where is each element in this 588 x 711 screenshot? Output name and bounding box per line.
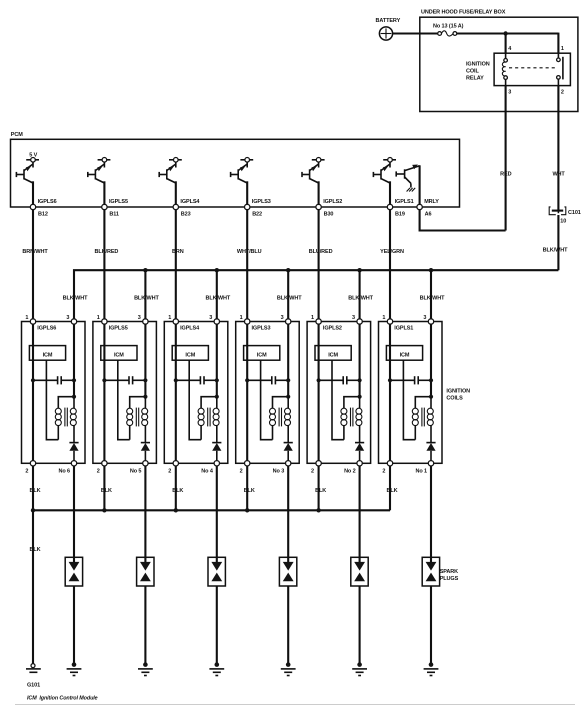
node coil pin 1 bbox=[316, 319, 321, 324]
svg-text:No 5: No 5 bbox=[130, 468, 142, 474]
wire pin1 through ICM to pin2 bbox=[175, 324, 177, 460]
battery bbox=[376, 18, 401, 40]
footer note ICM bbox=[27, 696, 98, 702]
capacitor (noise filter) bbox=[388, 376, 433, 384]
svg-text:BATTERY: BATTERY bbox=[376, 18, 401, 24]
spark plug No 3 bbox=[279, 557, 296, 586]
svg-text:2: 2 bbox=[25, 468, 28, 474]
svg-text:BLU/RED: BLU/RED bbox=[309, 249, 333, 255]
wire coil No 3 to spark plug bbox=[287, 466, 289, 562]
svg-text:COILS: COILS bbox=[446, 396, 463, 402]
svg-text:IGPLS6: IGPLS6 bbox=[37, 325, 56, 331]
wire pin3 down right side bbox=[430, 324, 432, 397]
svg-text:BLK: BLK bbox=[29, 547, 40, 553]
diode (secondary) bbox=[141, 443, 150, 461]
svg-text:IGPLS4: IGPLS4 bbox=[180, 199, 200, 205]
svg-text:ICM: ICM bbox=[185, 352, 195, 358]
wire BLK to G101 bbox=[29, 510, 40, 663]
wire spark plug No 5 to ground bbox=[144, 586, 146, 665]
svg-text:IGPLS5: IGPLS5 bbox=[109, 199, 128, 205]
svg-text:BLK: BLK bbox=[172, 488, 183, 494]
svg-text:G101: G101 bbox=[27, 683, 40, 689]
node pin A6 (MRLY) bbox=[417, 199, 439, 217]
node coil pin 3 bbox=[214, 319, 219, 324]
svg-text:1: 1 bbox=[25, 315, 28, 321]
ICM box bbox=[315, 346, 351, 361]
ground at spark plug No 3 bbox=[281, 662, 296, 675]
wire ICM output to primary bbox=[189, 360, 201, 440]
junction BLK bus 2 bbox=[102, 508, 106, 512]
wire BLK from coil No 2 pin 2 bbox=[315, 466, 326, 510]
wire coil No 4 to spark plug bbox=[216, 466, 218, 562]
svg-text:No 13 (15 A): No 13 (15 A) bbox=[433, 24, 464, 30]
transistor driver IGPLS3 bbox=[231, 158, 254, 184]
svg-text:B12: B12 bbox=[38, 211, 48, 217]
node coil pin 3 bbox=[286, 319, 291, 324]
wire WHT : relay pin 2 down to C101 bbox=[557, 86, 559, 211]
ground G101 bbox=[26, 664, 41, 689]
svg-text:UNDER HOOD FUSE/RELAY BOX: UNDER HOOD FUSE/RELAY BOX bbox=[421, 10, 506, 16]
ignition coil unit IGPLS4 / No 4 bbox=[164, 315, 228, 464]
svg-text:B23: B23 bbox=[181, 211, 191, 217]
svg-text:SPARK: SPARK bbox=[440, 569, 458, 575]
svg-text:B11: B11 bbox=[109, 211, 119, 217]
svg-text:BLK: BLK bbox=[29, 488, 40, 494]
ignition coil unit IGPLS2 / No 2 bbox=[307, 315, 371, 464]
svg-text:BLK: BLK bbox=[386, 488, 397, 494]
svg-text:BLK/WHT: BLK/WHT bbox=[420, 295, 445, 301]
node coil pin 2 bbox=[311, 461, 321, 475]
wire coil No 5 to spark plug bbox=[144, 466, 146, 562]
wire BRN (IGPLS4 signal) bbox=[172, 210, 184, 322]
wire IGPLS2 output to pin B30 bbox=[318, 181, 320, 207]
spark plug No 6 bbox=[65, 557, 82, 586]
wire IGPLS4 output to pin B23 bbox=[175, 181, 177, 207]
diode (secondary) bbox=[426, 443, 435, 461]
transistor driver IGPLS6 bbox=[16, 158, 39, 184]
svg-text:No 6: No 6 bbox=[58, 468, 70, 474]
svg-text:ICM: ICM bbox=[257, 352, 267, 358]
spark plug No 2 bbox=[351, 557, 368, 586]
svg-text:2: 2 bbox=[311, 468, 314, 474]
svg-text:IGPLS5: IGPLS5 bbox=[109, 325, 128, 331]
wire pin1 through ICM to pin2 bbox=[389, 324, 391, 460]
svg-text:WHT/BLU: WHT/BLU bbox=[237, 249, 262, 255]
svg-text:IGPLS6: IGPLS6 bbox=[38, 199, 57, 205]
wire ICM output to primary bbox=[46, 360, 58, 440]
node coil pin 2 bbox=[25, 461, 35, 475]
wire IGPLS1 output to pin B19 bbox=[389, 181, 391, 207]
svg-text:C101: C101 bbox=[568, 210, 581, 216]
capacitor (noise filter) bbox=[102, 376, 147, 384]
wire down to relay pin 4 bbox=[505, 34, 507, 54]
wire ICM output to primary bbox=[118, 360, 130, 440]
svg-text:1: 1 bbox=[561, 46, 564, 52]
svg-text:IGPLS2: IGPLS2 bbox=[323, 325, 342, 331]
transistor driver IGPLS5 bbox=[88, 158, 111, 184]
svg-text:ICM: ICM bbox=[328, 352, 338, 358]
node pin B11 (IGPLS5) bbox=[102, 199, 128, 217]
transistor driver IGPLS2 bbox=[302, 158, 325, 184]
svg-text:IGNITION: IGNITION bbox=[466, 62, 490, 68]
node coil pin 3 bbox=[357, 319, 362, 324]
wire BLK from coil No 4 pin 2 bbox=[172, 466, 183, 510]
svg-text:2: 2 bbox=[382, 468, 385, 474]
svg-text:ICM: ICM bbox=[43, 352, 53, 358]
junction BLK bus 4 bbox=[245, 508, 249, 512]
wire A6 to RED wire bbox=[420, 210, 506, 231]
wire pin3 down right side bbox=[287, 324, 289, 397]
svg-text:1: 1 bbox=[168, 315, 171, 321]
svg-text:BLK/RED: BLK/RED bbox=[95, 249, 119, 255]
ICM box bbox=[29, 346, 65, 361]
wire IGPLS5 output to pin B11 bbox=[103, 181, 105, 207]
svg-text:3: 3 bbox=[352, 315, 355, 321]
junction at relay pin 4 bbox=[503, 31, 507, 35]
scan artifact line bbox=[15, 704, 575, 706]
wire BLK ground bus bbox=[33, 509, 390, 511]
ignition coil unit IGPLS1 / No 1 bbox=[379, 315, 443, 464]
ICM box bbox=[244, 346, 280, 361]
node coil pin 2 bbox=[168, 461, 178, 475]
svg-text:ICM Ignition Control Module: ICM Ignition Control Module bbox=[27, 696, 98, 702]
diode (secondary) bbox=[69, 443, 78, 461]
transformer windings bbox=[198, 397, 219, 443]
node coil pin 2 bbox=[240, 461, 250, 475]
svg-text:BRN/WHT: BRN/WHT bbox=[22, 249, 48, 255]
node coil pin No 3 bbox=[273, 461, 291, 475]
svg-text:IGPLS2: IGPLS2 bbox=[323, 199, 342, 205]
diode (secondary) bbox=[355, 443, 364, 461]
wire BLK from coil No 3 pin 2 bbox=[244, 466, 255, 510]
node pin B19 (IGPLS1) bbox=[387, 199, 413, 217]
svg-text:3: 3 bbox=[281, 315, 284, 321]
svg-text:PLUGS: PLUGS bbox=[440, 576, 459, 582]
wire BLK from coil No 6 pin 2 bbox=[29, 466, 40, 510]
wire primary top feed bbox=[415, 395, 433, 408]
ignition coil relay bbox=[466, 46, 570, 95]
svg-text:B22: B22 bbox=[252, 211, 262, 217]
spark plug No 4 bbox=[208, 557, 225, 586]
connector C101 pin 10 bbox=[549, 207, 581, 225]
label SPARK PLUGS bbox=[440, 569, 459, 582]
svg-text:IGPLS4: IGPLS4 bbox=[180, 325, 200, 331]
wire pin1 through ICM to pin2 bbox=[103, 324, 105, 460]
node coil pin 1 bbox=[30, 319, 35, 324]
node coil pin 1 bbox=[387, 319, 392, 324]
svg-text:B19: B19 bbox=[395, 211, 405, 217]
svg-text:No 3: No 3 bbox=[273, 468, 285, 474]
capacitor (noise filter) bbox=[317, 376, 362, 384]
svg-text:3: 3 bbox=[209, 315, 212, 321]
svg-text:3: 3 bbox=[423, 315, 426, 321]
svg-text:BLK/WHT: BLK/WHT bbox=[63, 295, 88, 301]
svg-text:ICM: ICM bbox=[114, 352, 124, 358]
wire YEL/GRN (IGPLS1 signal) bbox=[380, 210, 404, 322]
node coil pin No 1 bbox=[415, 461, 433, 475]
node pin B23 (IGPLS4) bbox=[173, 199, 200, 217]
svg-text:IGPLS3: IGPLS3 bbox=[252, 325, 271, 331]
under-hood fuse/relay box bbox=[420, 10, 578, 112]
ignition coil unit IGPLS5 / No 5 bbox=[93, 315, 156, 464]
svg-text:No 4: No 4 bbox=[201, 468, 214, 474]
svg-text:BLK/WHT: BLK/WHT bbox=[348, 295, 373, 301]
svg-text:BLK: BLK bbox=[244, 488, 255, 494]
wire IGPLS3 output to pin B22 bbox=[246, 181, 248, 207]
ground at spark plug No 6 bbox=[67, 662, 82, 675]
wire primary top feed bbox=[344, 395, 362, 408]
wire spark plug No 2 to ground bbox=[359, 586, 361, 665]
wire pin3 down right side bbox=[216, 324, 218, 397]
wire WHT/BLU (IGPLS3 signal) bbox=[237, 210, 262, 322]
wire IGPLS6 output to pin B12 bbox=[32, 181, 34, 207]
node pin B30 (IGPLS2) bbox=[316, 199, 342, 217]
wire RED : relay pin 3 down to A6 row bbox=[505, 86, 507, 231]
svg-text:COIL: COIL bbox=[466, 69, 479, 75]
node pin B12 (IGPLS6) bbox=[30, 199, 56, 217]
node coil pin No 4 bbox=[201, 461, 219, 475]
svg-text:3: 3 bbox=[508, 89, 511, 95]
svg-text:A6: A6 bbox=[425, 211, 432, 217]
svg-text:1: 1 bbox=[311, 315, 314, 321]
svg-text:BLK/WHT: BLK/WHT bbox=[277, 295, 302, 301]
node coil pin 2 bbox=[97, 461, 107, 475]
svg-text:IGPLS1: IGPLS1 bbox=[395, 199, 414, 205]
wire BLK from coil No 1 pin 2 bbox=[386, 466, 397, 510]
node pin B22 (IGPLS3) bbox=[245, 199, 271, 217]
svg-text:2: 2 bbox=[240, 468, 243, 474]
transformer windings bbox=[412, 397, 433, 443]
junction BLK bus 3 bbox=[174, 508, 178, 512]
svg-text:BLK: BLK bbox=[315, 488, 326, 494]
ICM box bbox=[172, 346, 208, 361]
node coil pin No 2 bbox=[344, 461, 362, 475]
svg-text:IGPLS3: IGPLS3 bbox=[252, 199, 271, 205]
wire pin3 down right side bbox=[144, 324, 146, 397]
wire BLK/RED (IGPLS5 signal) bbox=[95, 210, 119, 322]
wire pin1 through ICM to pin2 bbox=[32, 324, 34, 460]
wire BLK from coil No 5 pin 2 bbox=[101, 466, 112, 510]
wire pin1 through ICM to pin2 bbox=[318, 324, 320, 460]
svg-text:No 2: No 2 bbox=[344, 468, 356, 474]
ground inside PCM (MRLY emitter) bbox=[407, 188, 416, 192]
spark plug No 1 bbox=[422, 557, 439, 586]
svg-text:2: 2 bbox=[168, 468, 171, 474]
wire BLK/WHT drop to coil No 2 bbox=[357, 268, 361, 322]
svg-text:3: 3 bbox=[66, 315, 69, 321]
PCM box bbox=[11, 132, 460, 207]
svg-text:No 1: No 1 bbox=[415, 468, 427, 474]
wire coil No 6 to spark plug bbox=[73, 466, 75, 562]
svg-text:1: 1 bbox=[382, 315, 385, 321]
wire ICM output to primary bbox=[403, 360, 415, 440]
wire BLK/WHT : C101 down to bus bbox=[557, 215, 559, 270]
capacitor (noise filter) bbox=[31, 376, 76, 384]
ICM box bbox=[386, 346, 422, 361]
wire spark plug No 3 to ground bbox=[287, 586, 289, 665]
wire BLK/WHT drop to coil No 4 bbox=[215, 268, 219, 322]
node coil pin No 6 bbox=[58, 461, 76, 475]
svg-text:RED: RED bbox=[500, 172, 511, 178]
svg-text:3: 3 bbox=[138, 315, 141, 321]
svg-text:2: 2 bbox=[561, 89, 564, 95]
ICM box bbox=[101, 346, 137, 361]
svg-text:BLK/WHT: BLK/WHT bbox=[205, 295, 230, 301]
wire fuse to relay pin1 corner bbox=[457, 32, 559, 34]
transistor driver IGPLS1 bbox=[373, 158, 396, 184]
node coil pin 3 bbox=[143, 319, 148, 324]
wire pin1 through ICM to pin2 bbox=[246, 324, 248, 460]
node coil pin 1 bbox=[102, 319, 107, 324]
node coil pin No 5 bbox=[130, 461, 148, 475]
wire BLK/WHT drop to coil No 3 bbox=[286, 268, 290, 322]
diode (secondary) bbox=[284, 443, 293, 461]
node coil pin 2 bbox=[382, 461, 392, 475]
node coil pin 1 bbox=[245, 319, 250, 324]
wire spark plug No 6 to ground bbox=[73, 586, 75, 665]
ground at spark plug No 1 bbox=[424, 662, 439, 675]
node coil pin 3 bbox=[428, 319, 433, 324]
transformer windings bbox=[341, 397, 362, 443]
transformer windings bbox=[127, 397, 148, 443]
ignition coil unit IGPLS6 / No 6 bbox=[22, 315, 86, 464]
transistor MRLY driver bbox=[396, 165, 419, 188]
diode (secondary) bbox=[212, 443, 221, 461]
node coil pin 3 bbox=[71, 319, 76, 324]
svg-text:BLK/WHT: BLK/WHT bbox=[134, 295, 159, 301]
wire spark plug No 4 to ground bbox=[216, 586, 218, 665]
svg-text:WHT: WHT bbox=[552, 172, 565, 178]
ground at spark plug No 5 bbox=[138, 662, 153, 675]
svg-text:IGPLS1: IGPLS1 bbox=[394, 325, 413, 331]
wire ICM output to primary bbox=[261, 360, 273, 440]
wire coil No 2 to spark plug bbox=[359, 466, 361, 562]
wire BLK/WHT drop to coil No 5 bbox=[143, 268, 147, 322]
svg-text:YEL/GRN: YEL/GRN bbox=[380, 249, 404, 255]
wire pin3 down right side bbox=[73, 324, 75, 397]
wire pin3 down right side bbox=[359, 324, 361, 397]
wire ICM output to primary bbox=[332, 360, 344, 440]
label IGNITION COILS bbox=[446, 389, 470, 402]
wire BLK/WHT drop to coil No 1 bbox=[429, 268, 433, 322]
ignition coil unit IGPLS3 / No 3 bbox=[236, 315, 300, 464]
capacitor (noise filter) bbox=[245, 376, 290, 384]
svg-text:2: 2 bbox=[97, 468, 100, 474]
node coil pin 1 bbox=[173, 319, 178, 324]
junction BLK bus 1 bbox=[31, 508, 35, 512]
wire BLU/RED (IGPLS2 signal) bbox=[309, 210, 333, 322]
transformer windings bbox=[270, 397, 291, 443]
wire primary top feed bbox=[58, 395, 76, 408]
svg-text:ICM: ICM bbox=[400, 352, 410, 358]
transistor driver IGPLS4 bbox=[159, 158, 182, 184]
svg-text:IGNITION: IGNITION bbox=[446, 389, 470, 395]
svg-text:BLK: BLK bbox=[101, 488, 112, 494]
svg-text:1: 1 bbox=[97, 315, 100, 321]
svg-text:RELAY: RELAY bbox=[466, 76, 484, 82]
svg-text:B30: B30 bbox=[324, 211, 334, 217]
transformer windings bbox=[55, 397, 76, 443]
junction BLK bus 5 bbox=[316, 508, 320, 512]
svg-text:MRLY: MRLY bbox=[424, 199, 439, 205]
wire spark plug No 1 to ground bbox=[430, 586, 432, 665]
fuse No 13 (15 A) bbox=[433, 24, 464, 36]
svg-text:BLK/WHT: BLK/WHT bbox=[543, 248, 568, 254]
wire primary top feed bbox=[273, 395, 291, 408]
wire primary top feed bbox=[201, 395, 219, 408]
wire battery to fuse bbox=[393, 32, 438, 34]
wire BLK/WHT bus from C101 to coils bbox=[74, 270, 558, 321]
spark plug No 5 bbox=[137, 557, 154, 586]
wire MRLY collector to pin A6 bbox=[419, 165, 421, 207]
wire primary top feed bbox=[130, 395, 148, 408]
wire down to relay pin 1 bbox=[557, 33, 559, 54]
svg-text:10: 10 bbox=[560, 219, 566, 225]
capacitor (noise filter) bbox=[174, 376, 219, 384]
ground at spark plug No 2 bbox=[352, 662, 367, 675]
wire coil No 1 to spark plug bbox=[430, 466, 432, 562]
svg-text:1: 1 bbox=[240, 315, 243, 321]
wire BRN/WHT (IGPLS6 signal) bbox=[22, 210, 48, 322]
ground at spark plug No 4 bbox=[209, 662, 224, 675]
svg-text:BRN: BRN bbox=[172, 249, 184, 255]
svg-text:PCM: PCM bbox=[11, 132, 23, 138]
